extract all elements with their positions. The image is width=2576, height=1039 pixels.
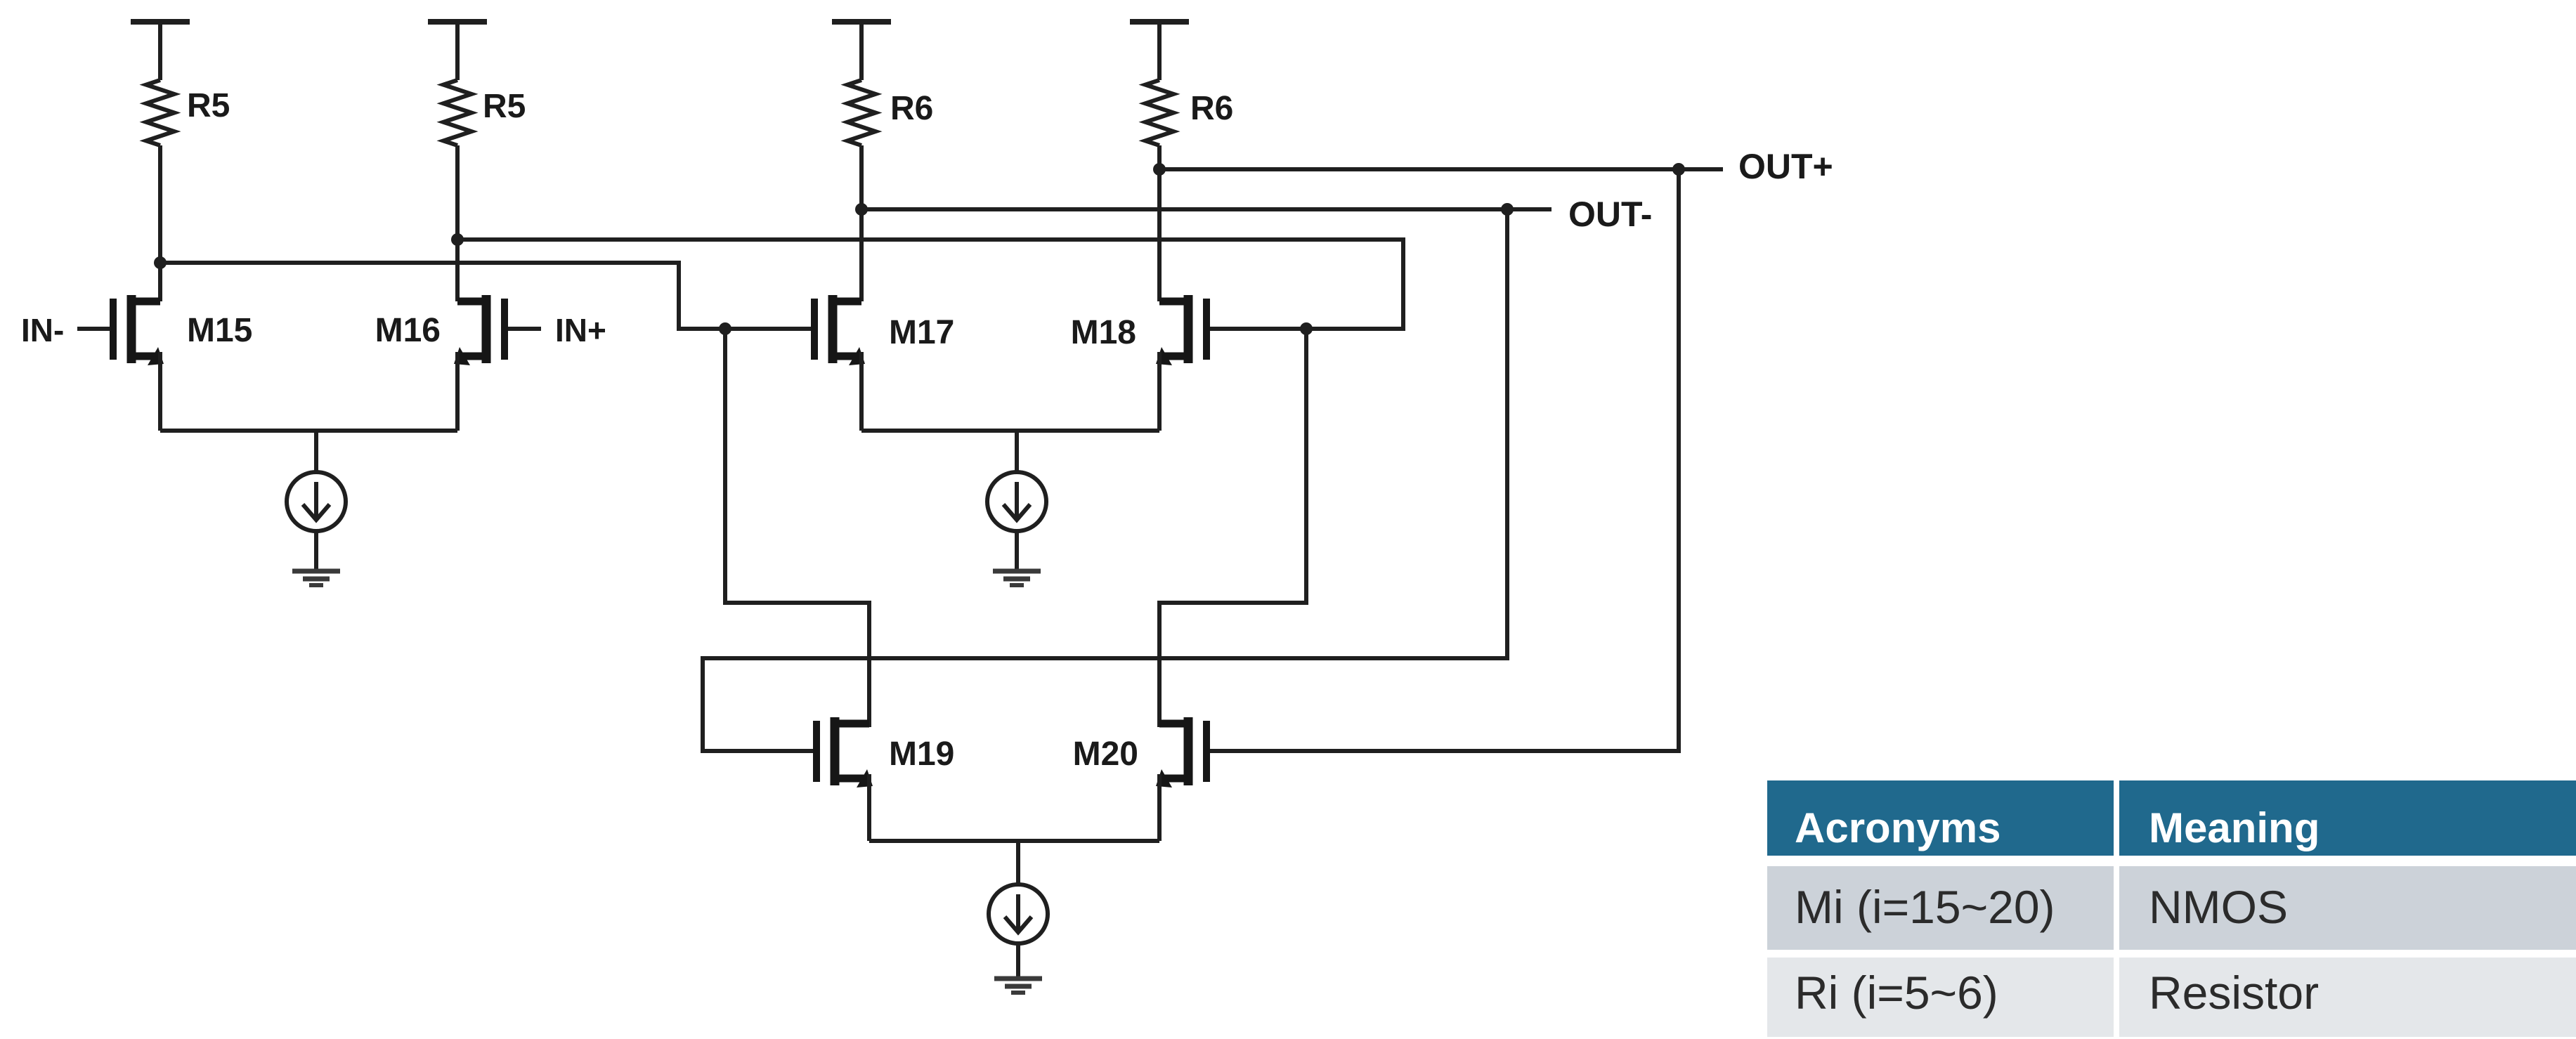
current source I2 xyxy=(987,472,1046,531)
node J2 (M18 gate / M20 drain tie) xyxy=(1300,322,1313,335)
current source I1 xyxy=(287,472,346,531)
svg-text:NMOS: NMOS xyxy=(2149,881,2288,933)
resistor R6 (right) xyxy=(1145,80,1173,145)
wire R5 bottom to node A xyxy=(158,145,162,263)
svg-text:IN-: IN- xyxy=(21,312,64,348)
resistor R5 (right) xyxy=(443,80,471,145)
wire J1 down to M19 drain xyxy=(725,329,869,727)
ground (pair2 tail) xyxy=(993,569,1041,574)
svg-text:Resistor: Resistor xyxy=(2149,967,2319,1019)
node D (M18 drain / OUT+) xyxy=(1153,163,1166,176)
wire M15 source down xyxy=(158,352,162,431)
node OUT+ junction xyxy=(1672,163,1685,176)
resistor R6 (left) xyxy=(847,80,876,145)
svg-text:M19: M19 xyxy=(889,736,954,773)
wire M18 source down xyxy=(1157,352,1162,431)
svg-text:OUT+: OUT+ xyxy=(1738,147,1833,186)
node A (M15 drain) xyxy=(154,256,167,269)
wire OUT- line xyxy=(861,207,1552,211)
wire tail1 to current source xyxy=(314,431,318,473)
resistor R5 (left) xyxy=(146,80,174,145)
node B (M16 drain) xyxy=(451,233,464,246)
wire R6 bottom to node C xyxy=(859,145,864,209)
wire M19 source down xyxy=(867,774,871,841)
wire OUT- to M19 gate xyxy=(703,209,1507,751)
wire pair3 tail xyxy=(869,839,1159,843)
table row1 cell left xyxy=(1767,866,2114,950)
power rail VDD (above R5 right) xyxy=(428,19,487,25)
wire R5 bottom to node B xyxy=(455,145,460,240)
transistor M17 xyxy=(828,295,838,363)
wire pair2 tail xyxy=(861,429,1159,433)
svg-text:M17: M17 xyxy=(889,314,954,351)
svg-text:R6: R6 xyxy=(890,90,933,127)
wire IN+ gate lead xyxy=(507,327,541,331)
wire I3 to ground xyxy=(1016,943,1020,978)
svg-text:IN+: IN+ xyxy=(555,312,606,348)
node J1 (M17 gate / M19 drain tie) xyxy=(719,322,731,335)
svg-text:Ri (i=5~6): Ri (i=5~6) xyxy=(1795,967,1998,1019)
transistor M18 xyxy=(1184,295,1193,363)
transistor M20 xyxy=(1184,717,1193,785)
svg-text:R5: R5 xyxy=(187,87,230,124)
wire tail2 to current source xyxy=(1015,431,1019,473)
svg-text:Mi (i=15~20): Mi (i=15~20) xyxy=(1795,881,2055,933)
wire J2 down to M20 drain xyxy=(1159,329,1306,727)
wire IN- gate lead xyxy=(77,327,115,331)
wire M16 drain xyxy=(455,240,460,301)
table row2 cell left xyxy=(1767,958,2114,1037)
table header cell Meaning xyxy=(2119,780,2576,856)
transistor M15 xyxy=(127,295,136,363)
wire I2 to ground xyxy=(1015,531,1019,570)
svg-text:OUT-: OUT- xyxy=(1568,195,1652,234)
wire M17 source down xyxy=(859,352,864,431)
svg-text:M20: M20 xyxy=(1073,736,1138,773)
wire node B to M18 gate xyxy=(457,240,1403,329)
current source I3 xyxy=(989,884,1048,943)
ground (pair3 tail) xyxy=(994,976,1042,981)
wire R6 bottom to node D xyxy=(1157,145,1162,169)
wire tail3 to current source xyxy=(1016,841,1020,885)
table row1 cell right xyxy=(2119,866,2576,950)
svg-text:Acronyms: Acronyms xyxy=(1795,804,2001,851)
power rail VDD (above R6 right) xyxy=(1130,19,1189,25)
ground (pair1 tail) xyxy=(292,569,340,574)
wire pair1 tail xyxy=(160,429,457,433)
wire node A to M17 gate xyxy=(160,263,815,329)
svg-text:R5: R5 xyxy=(483,88,526,125)
wire M15 drain xyxy=(158,263,162,301)
transistor M16 xyxy=(482,295,491,363)
svg-text:M16: M16 xyxy=(375,312,441,349)
svg-text:M18: M18 xyxy=(1071,314,1136,351)
wire I1 to ground xyxy=(314,531,318,570)
power rail VDD (above R5 left) xyxy=(131,19,190,25)
svg-text:R6: R6 xyxy=(1190,90,1233,127)
wire OUT+ line xyxy=(1159,167,1723,171)
transistor M19 xyxy=(831,717,840,785)
power rail VDD (above R6 left) xyxy=(832,19,891,25)
svg-text:M15: M15 xyxy=(187,312,252,349)
wire M16 source down xyxy=(455,352,460,431)
wire M20 source down xyxy=(1157,774,1162,841)
wire M18 drain xyxy=(1157,169,1162,301)
wire M17 drain xyxy=(859,209,864,301)
svg-text:Meaning: Meaning xyxy=(2149,804,2320,851)
node OUT- junction xyxy=(1501,203,1514,216)
wire OUT+ to M20 gate xyxy=(1208,169,1679,751)
table header cell Acronyms xyxy=(1767,780,2114,856)
table row2 cell right xyxy=(2119,958,2576,1037)
node C (M17 drain / OUT-) xyxy=(855,203,868,216)
